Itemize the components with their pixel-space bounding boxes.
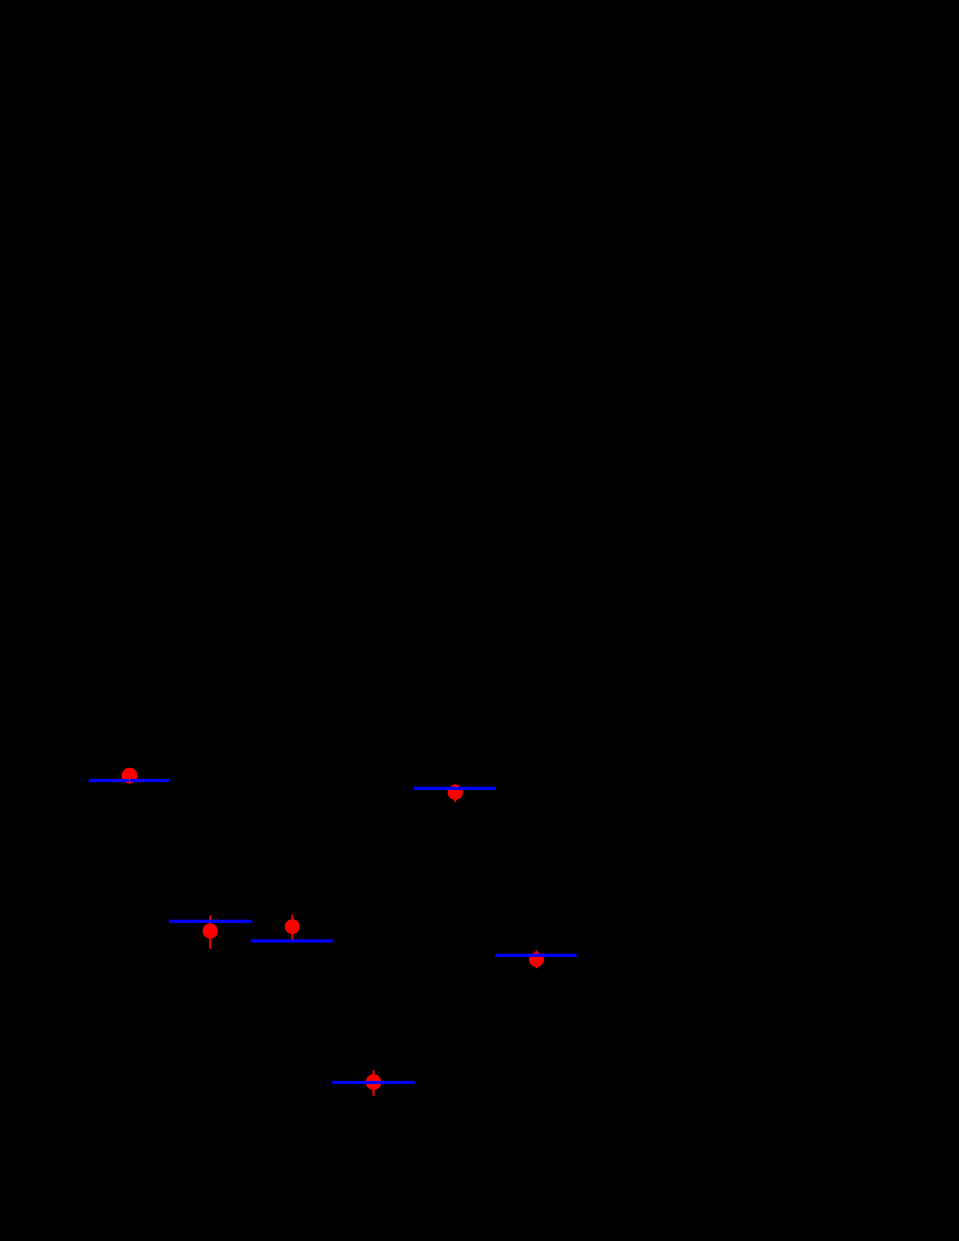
data marker 2 (red circle) [448,785,463,800]
error bar 1 (red vertical, drawn over line) [129,768,131,784]
data marker 1 (red circle) [122,768,138,784]
error bar 4 (red vertical) [291,915,293,941]
data marker 3 (red circle) [203,923,218,938]
prediction line 5 (blue) [495,954,577,957]
error bar 5 (red vertical) [536,950,538,968]
data marker 6 (red circle) [366,1074,382,1090]
error bar 3 (red vertical) [209,916,211,949]
data marker 5 (red circle) [529,952,544,967]
error bar 2 (red vertical) [454,784,456,803]
prediction line 1 (blue) [89,779,170,782]
data marker 4 (red circle) [285,919,300,934]
prediction line 6 (blue) [332,1081,415,1084]
prediction line 3 (blue) [169,920,252,923]
error bar 6 (red vertical) [373,1070,375,1096]
prediction line 2 (blue) [414,787,496,790]
prediction line 4 (blue) [251,939,333,942]
